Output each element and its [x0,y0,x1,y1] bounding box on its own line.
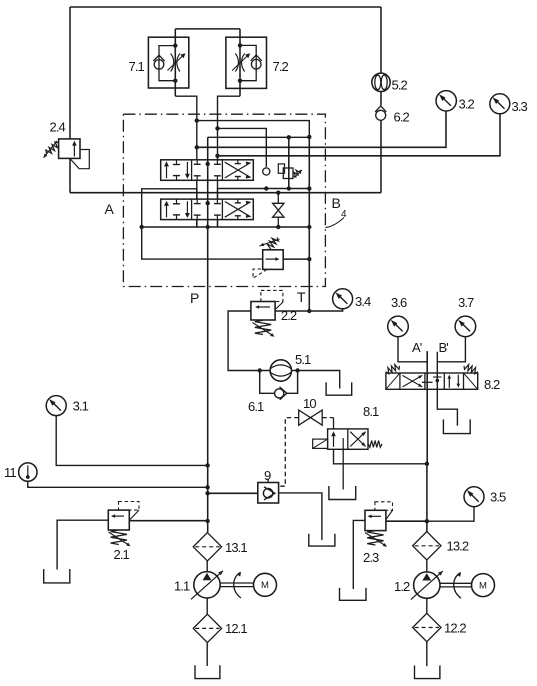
pilot relief in block [288,137,290,188]
wire: T column [308,137,310,311]
wire: relief to T column [283,258,309,260]
wire: outer loop top [70,6,381,8]
wire: 2.1 right to P column [129,520,207,522]
wire: 3.7 to B-prime [437,337,465,362]
check valve in 7.1 [154,60,164,70]
svg-text:1.2: 1.2 [394,579,410,594]
svg-text:2.1: 2.1 [114,547,130,562]
flow control valve 7.1 box [148,37,188,88]
wire: 12.2 to tank [426,642,428,667]
flow meter 5.1 [270,360,291,381]
tank right of 9 [309,534,335,546]
wire: 2.3 right to A-prime column [386,520,427,522]
electric motor M2 [472,574,495,597]
relief valve 2.3 [365,510,386,530]
check valve 6.2 [376,110,386,120]
wire: 7.2 drop to block [218,96,241,160]
svg-text:7.2: 7.2 [273,59,289,74]
throttle in 7.1 [171,54,174,72]
svg-text:2.2: 2.2 [281,308,297,323]
wire: 7.x crossover top [175,28,240,30]
svg-text:9: 9 [264,468,271,483]
svg-text:7.1: 7.1 [129,59,145,74]
wire: 3.6 to A-prime [398,337,427,362]
solenoid of 8.1 [313,439,328,448]
wire: outer loop right side [380,7,382,73]
spring of 8.1 [368,441,382,448]
svg-text:13.1: 13.1 [225,540,247,555]
filter 13.1 [193,533,221,561]
wire: 8.1 bottom left to right branch [334,449,427,464]
main relief valve in block [263,250,284,270]
svg-text:5.2: 5.2 [392,78,408,93]
relief valve 2.1 [108,510,129,530]
svg-text:M: M [261,580,269,591]
svg-text:A: A [105,201,115,217]
shuttle ball [263,168,270,175]
wire: node line y128.4 to ball column [218,128,267,167]
flow control valve 7.2 box [226,37,267,88]
tank at 5.1 [326,382,352,395]
suction tank 1.2 [415,666,440,679]
filter 13.2 [413,532,441,560]
wire: P bypass line y137.3 [208,136,310,138]
shutoff valve 10 [299,410,311,425]
wire: 3.1 to P column [56,415,207,465]
drive shaft 1.2 [440,582,472,584]
relief valve 2.4 [59,139,80,159]
wire: 7.1 bypass branch [159,46,175,81]
wire: 11 to P column [28,481,208,487]
svg-text:8.1: 8.1 [363,404,379,419]
wire: gauge 3.3 line [218,114,501,156]
wire: 3.5 to junction [427,507,474,522]
directional control valve lower [161,199,254,220]
tank left of 2.1 [44,569,70,583]
flow meter 5.2 [372,73,390,91]
check valve 6.1 bypass [260,371,275,394]
wire: A-prime column [426,351,428,464]
svg-text:B': B' [439,340,449,355]
wire: P center column through valves [207,137,209,532]
svg-text:8.2: 8.2 [484,377,500,392]
thermometer 11 [19,463,37,481]
wire: 2.1 left to tank [57,520,108,569]
wire: gauge 3.2 line [197,111,446,147]
drive shaft 1.1 [220,582,253,584]
wire: outer loop bottom [70,192,381,194]
gauge 3.7 [455,316,476,337]
wire: A-side left loop [142,180,263,259]
wire: dashed 10 right to 8.1 [322,417,333,419]
wire: lower valve bottom line [142,226,310,228]
throttle (X) branch [277,193,279,204]
svg-text:T: T [297,289,306,305]
directional control valve upper [161,160,254,181]
svg-text:3.1: 3.1 [73,399,89,414]
gauge 3.4 [333,289,353,309]
svg-text:3.2: 3.2 [459,96,475,111]
svg-text:1.1: 1.1 [174,579,190,594]
filter 12.2 [426,598,428,613]
svg-text:3.7: 3.7 [458,295,474,310]
wire: A-prime column to 13.2 [426,464,428,532]
svg-text:P: P [190,290,199,306]
tank at 8.1 [329,486,356,500]
rotation arrow [234,573,241,599]
wire: outer loop left side [69,7,71,139]
svg-text:A': A' [412,340,422,355]
pump 1.1 [194,572,220,598]
electric motor M [254,573,277,596]
wire: B-side right line [218,180,310,188]
wire: 5.1 to tank [292,371,340,389]
gauge 3.5 [464,487,484,507]
svg-text:2.4: 2.4 [50,120,66,135]
svg-text:6.2: 6.2 [394,110,410,125]
svg-text:B: B [332,195,341,211]
gauge 3.1 [46,396,66,416]
svg-text:3.4: 3.4 [355,294,371,309]
proportional valve 8.2 [386,373,478,389]
svg-text:11: 11 [4,465,16,480]
manifold enclosure (dash-dot) [123,114,325,286]
wire: dashed pilot from 10 left [279,418,299,487]
wire: B-prime column [437,352,457,426]
svg-text:3.5: 3.5 [490,490,506,505]
svg-text:3.6: 3.6 [391,295,407,310]
pressure valve 2.2 [251,302,275,321]
wire: 7.1 drop to block [175,96,197,160]
filter 12.1 [206,598,208,614]
wire: lower valve top stubs [196,189,198,199]
wire: 9 right to tank [279,493,322,540]
wire: node line y120.6 to T-column [197,121,309,137]
wire: 7.2 bypass branch [240,45,256,80]
wire: 7.2 through line [239,29,241,96]
svg-text:12.2: 12.2 [444,621,466,636]
suction tank 1.1 [195,665,220,678]
svg-text:13.2: 13.2 [447,539,469,554]
wire: 12.1 to tank [206,643,208,666]
wire: 2.2 left down to 5.1 [228,311,270,371]
svg-text:12.1: 12.1 [225,621,247,636]
svg-text:10: 10 [303,396,316,411]
check valve in 7.2 [251,59,261,69]
wire: 8.1 tank line [342,449,344,489]
solenoid valve 8.1 [328,429,368,449]
rotation arrow 2 [454,573,461,598]
wire: 2.2 right to T junction [275,310,309,312]
pump 1.2 [414,572,440,598]
junction A-prime and 8.1 branch [425,462,429,466]
check valve 9 [258,483,279,504]
wire: 9 left to P column [208,492,258,494]
wire: 13.1 to pump [206,561,208,572]
svg-text:5.1: 5.1 [295,352,311,367]
gauge 3.6 [388,316,409,337]
junction on bottom loop at throttle branch [276,191,280,195]
tank at 8.2 [443,419,470,433]
throttle in 7.2 [235,54,238,72]
svg-text:3.3: 3.3 [512,99,528,114]
gauge 3.3 [490,94,510,114]
wire: 2.3 left to tank [353,520,365,589]
svg-text:M: M [479,581,487,592]
svg-text:6.1: 6.1 [248,399,264,414]
tank left of 1.2 [340,588,367,600]
wire: 7.1 through line [174,29,176,96]
svg-text:2.3: 2.3 [363,550,379,565]
gauge 3.2 [436,91,456,111]
svg-text:4: 4 [341,209,347,220]
